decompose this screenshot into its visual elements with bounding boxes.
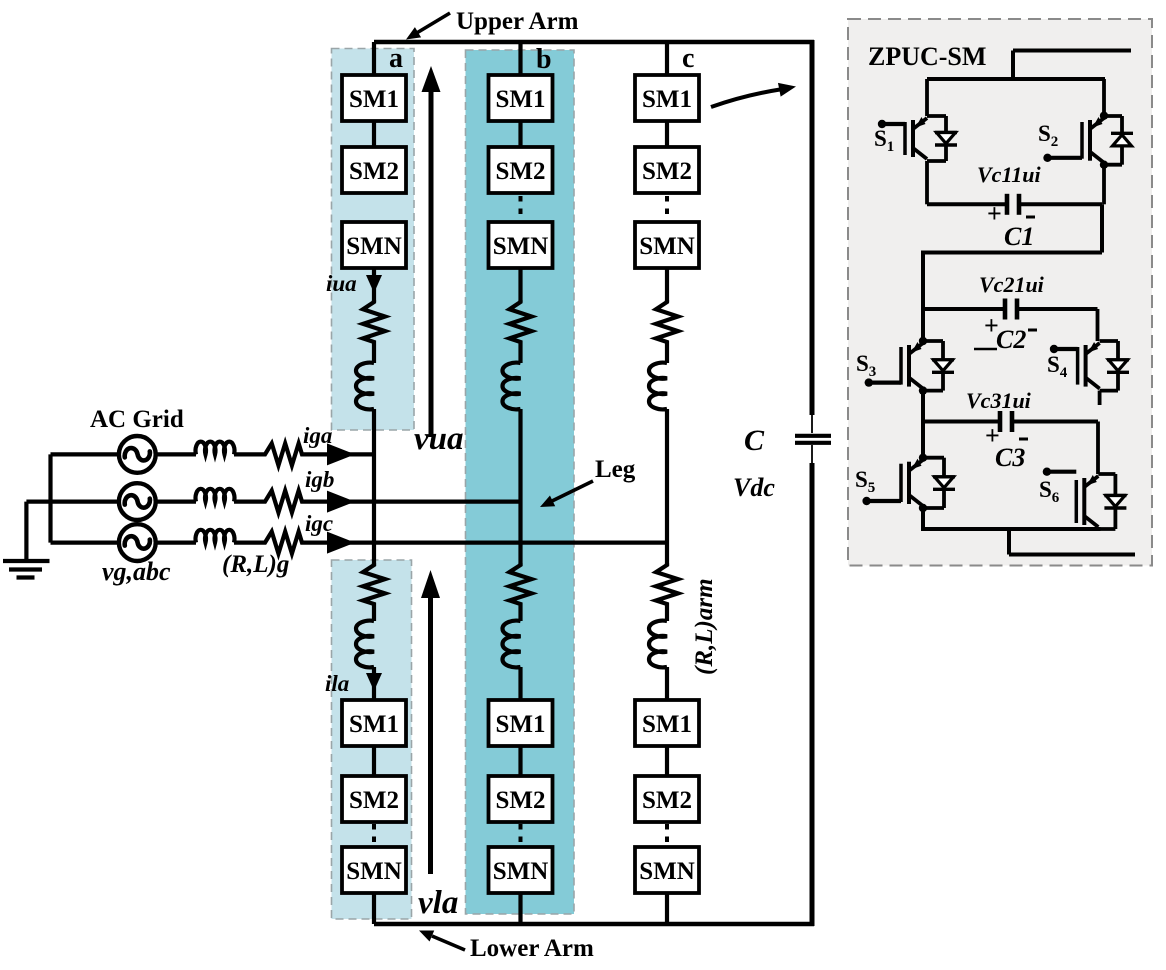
svg-text:SM2: SM2 — [496, 787, 546, 814]
svg-text:+: + — [987, 199, 1002, 228]
svg-text:SM1: SM1 — [496, 86, 546, 113]
svg-text:C: C — [744, 424, 765, 457]
svg-text:Lower Arm: Lower Arm — [470, 935, 594, 962]
svg-text:vg,abc: vg,abc — [102, 557, 171, 586]
svg-text:b: b — [536, 44, 552, 75]
svg-text:SMN: SMN — [346, 233, 402, 260]
svg-text:c: c — [682, 43, 694, 74]
svg-text:igb: igb — [305, 467, 334, 492]
svg-text:SM2: SM2 — [349, 158, 399, 185]
svg-text:(R,L)arm: (R,L)arm — [691, 578, 718, 675]
svg-text:SM1: SM1 — [642, 711, 692, 738]
svg-text:SM2: SM2 — [642, 787, 692, 814]
svg-text:+: + — [984, 311, 999, 340]
svg-text:Vdc: Vdc — [733, 473, 775, 502]
svg-text:AC Grid: AC Grid — [90, 406, 184, 433]
svg-text:SM1: SM1 — [349, 711, 399, 738]
svg-text:iua: iua — [326, 271, 357, 296]
svg-text:ila: ila — [325, 671, 349, 696]
svg-text:Vc11ui: Vc11ui — [977, 162, 1041, 187]
svg-text:SMN: SMN — [493, 233, 549, 260]
svg-text:SM2: SM2 — [349, 787, 399, 814]
svg-text:(R,L)g: (R,L)g — [222, 551, 289, 578]
svg-text:C2: C2 — [996, 325, 1026, 354]
svg-text:Vc21ui: Vc21ui — [979, 272, 1045, 297]
svg-text:vla: vla — [418, 885, 458, 921]
svg-text:C1: C1 — [1004, 222, 1034, 251]
svg-text:SM2: SM2 — [642, 158, 692, 185]
svg-text:a: a — [389, 43, 403, 74]
svg-text:SMN: SMN — [639, 858, 695, 885]
svg-text:+: + — [985, 421, 1000, 450]
svg-text:SMN: SMN — [493, 858, 549, 885]
svg-text:Upper Arm: Upper Arm — [456, 8, 579, 35]
svg-text:SMN: SMN — [639, 233, 695, 260]
svg-text:vua: vua — [414, 421, 464, 457]
svg-text:SM1: SM1 — [496, 711, 546, 738]
svg-text:Leg: Leg — [595, 456, 636, 483]
svg-text:iga: iga — [303, 423, 332, 448]
svg-text:igc: igc — [305, 511, 333, 536]
svg-text:Vc31ui: Vc31ui — [966, 388, 1032, 413]
svg-text:SM2: SM2 — [496, 158, 546, 185]
svg-text:SMN: SMN — [346, 858, 402, 885]
svg-text:ZPUC-SM: ZPUC-SM — [868, 42, 986, 71]
svg-text:SM1: SM1 — [642, 86, 692, 113]
svg-text:SM1: SM1 — [349, 86, 399, 113]
